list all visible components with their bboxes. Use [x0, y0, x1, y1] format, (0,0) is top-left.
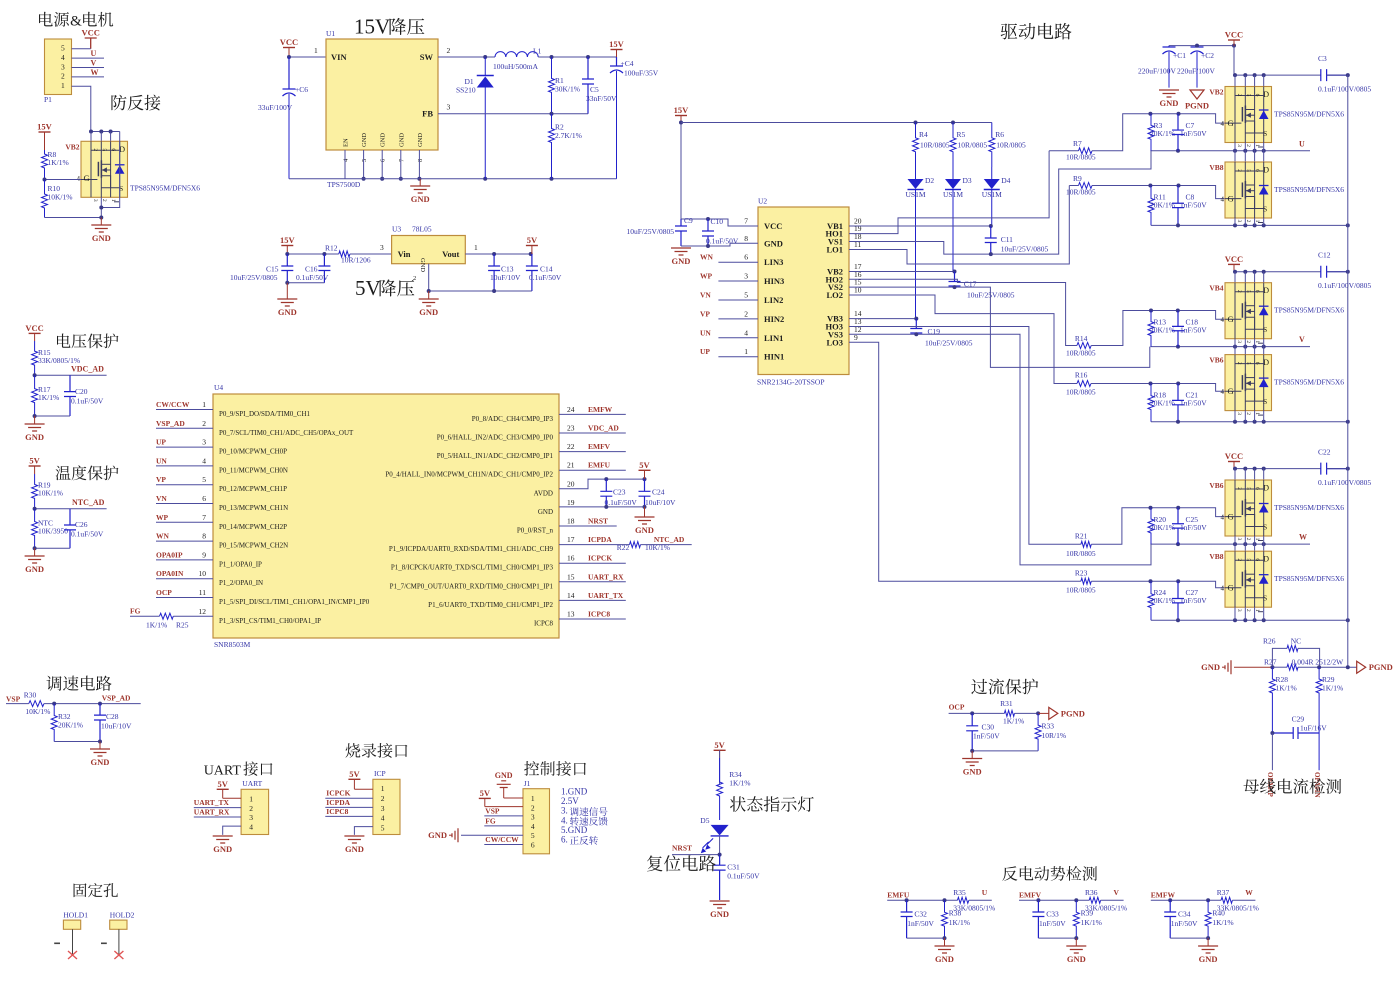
svg-text:1nF/50V: 1nF/50V — [1171, 919, 1198, 928]
wire U2 UN — [718, 337, 758, 339]
power VCC — [1225, 30, 1243, 47]
wire P1 pin3 V — [72, 67, 105, 69]
svg-text:+C6: +C6 — [295, 85, 308, 94]
svg-text:20K/1%: 20K/1% — [1150, 201, 1175, 210]
resistor R17 — [32, 375, 60, 416]
wire U4 pin 10 — [156, 578, 213, 580]
svg-text:10K/1%: 10K/1% — [645, 543, 670, 552]
svg-text:P0_4/HALL_IN0/MCPWM_CH1N/ADC_C: P0_4/HALL_IN0/MCPWM_CH1N/ADC_CH1/CMP0_IP… — [385, 471, 553, 479]
svg-text:VSP: VSP — [6, 695, 21, 704]
pin 23 U4 — [437, 424, 575, 442]
ground — [91, 218, 111, 244]
svg-text:OCP: OCP — [949, 703, 965, 712]
wire R21 to gate5 — [1091, 508, 1225, 545]
svg-text:6: 6 — [1254, 558, 1260, 561]
resistor R28 — [1269, 667, 1296, 733]
svg-text:10R/1206: 10R/1206 — [341, 256, 371, 265]
resistor R33 — [1035, 713, 1066, 751]
wire drain rail — [1234, 271, 1321, 273]
svg-text:0.1uF/50V: 0.1uF/50V — [296, 273, 329, 282]
svg-text:24: 24 — [567, 405, 575, 414]
svg-text:W: W — [91, 68, 99, 77]
svg-text:20K/1%: 20K/1% — [1150, 399, 1175, 408]
svg-text:10K/1%: 10K/1% — [25, 707, 50, 716]
ground — [1198, 938, 1218, 964]
title 状态指示灯 — [730, 796, 814, 812]
title 5V降压 — [355, 276, 414, 300]
pin 24 U4 — [472, 405, 575, 423]
svg-text:10uF/25V/0805: 10uF/25V/0805 — [925, 339, 973, 348]
svg-text:10uF/25V/0805: 10uF/25V/0805 — [1001, 245, 1049, 254]
svg-text:7: 7 — [202, 513, 206, 522]
capacitor C9 — [675, 219, 687, 246]
svg-text:OPA0IP: OPA0IP — [156, 550, 183, 559]
wire Q1 right side — [101, 132, 119, 208]
connector J1 — [523, 779, 550, 854]
svg-text:C23: C23 — [613, 488, 626, 497]
svg-text:2: 2 — [1245, 412, 1251, 415]
svg-text:P1: P1 — [44, 95, 52, 104]
node VP — [156, 475, 166, 484]
svg-text:GND: GND — [417, 133, 424, 147]
svg-text:1nF/50V: 1nF/50V — [907, 919, 934, 928]
svg-text:1: 1 — [381, 784, 385, 793]
wire EMFU row — [887, 899, 957, 901]
resistor R32 — [51, 704, 83, 742]
svg-text:220uF/100V: 220uF/100V — [1138, 67, 1177, 76]
pin 21 U4 — [385, 461, 574, 479]
wire U2 VN — [718, 299, 758, 301]
resistor R19 — [32, 474, 63, 509]
svg-text:S: S — [1263, 129, 1267, 138]
svg-text:5V: 5V — [355, 276, 381, 300]
svg-text:GND: GND — [672, 256, 691, 266]
svg-text:5V: 5V — [639, 460, 650, 470]
svg-text:10R/0805: 10R/0805 — [958, 141, 988, 150]
svg-text:VP: VP — [156, 475, 166, 484]
wire C1 C2 to VCC — [1169, 46, 1234, 76]
svg-text:W: W — [1299, 533, 1307, 542]
svg-text:GND: GND — [361, 133, 368, 147]
ground — [962, 751, 982, 777]
wire U4 pin 3 — [156, 446, 213, 448]
connector HOLD1 — [54, 911, 88, 960]
wire VS1 net — [849, 151, 1151, 254]
transistor Q3 — [1209, 162, 1344, 223]
wire U2 GND net — [681, 243, 758, 246]
svg-text:HIN1: HIN1 — [764, 352, 784, 362]
svg-text:3: 3 — [249, 813, 253, 822]
svg-text:6: 6 — [1254, 362, 1260, 365]
svg-text:GND: GND — [710, 909, 729, 919]
node OPA0IN — [156, 569, 184, 578]
svg-text:33nF/50V: 33nF/50V — [586, 94, 617, 103]
title 电压保护 — [57, 333, 118, 348]
capacitor C3 — [1321, 69, 1348, 81]
svg-text:5: 5 — [202, 475, 206, 484]
svg-text:2: 2 — [1245, 538, 1251, 541]
svg-text:5: 5 — [101, 148, 107, 151]
svg-text:GND: GND — [635, 525, 654, 535]
svg-text:18: 18 — [567, 517, 575, 526]
ground — [1159, 90, 1179, 108]
svg-text:4: 4 — [1221, 388, 1225, 396]
svg-text:R27: R27 — [1264, 658, 1277, 667]
svg-text:R6: R6 — [995, 130, 1004, 139]
wire P1 pin4 U — [72, 57, 105, 59]
svg-text:LIN1: LIN1 — [764, 333, 783, 343]
capacitor C15 — [281, 254, 293, 283]
svg-text:3: 3 — [380, 243, 384, 252]
svg-text:7: 7 — [744, 217, 748, 226]
svg-text:10uF/25V/0805: 10uF/25V/0805 — [627, 227, 675, 236]
pin 8 U2 GND — [744, 234, 783, 249]
pin 11 U4 — [199, 588, 370, 606]
svg-text:P1_7/CMP0_OUT/UART0_RXD/TIM0_C: P1_7/CMP0_OUT/UART0_RXD/TIM0_CH0/CMP1_IP… — [390, 582, 554, 590]
svg-text:2: 2 — [1245, 609, 1251, 612]
svg-text:S: S — [1263, 205, 1267, 214]
svg-text:2: 2 — [1236, 169, 1242, 172]
wire J1 pin6 — [484, 844, 523, 846]
resistor R2 — [549, 114, 582, 179]
transistor Q6 — [1209, 480, 1344, 541]
ground — [635, 507, 655, 535]
svg-text:PGND: PGND — [1185, 101, 1209, 111]
svg-text:0.1uF/100V/0805: 0.1uF/100V/0805 — [1318, 281, 1371, 290]
svg-text:R39: R39 — [1081, 909, 1094, 918]
svg-text:3: 3 — [447, 103, 451, 112]
svg-text:100uH/500mA: 100uH/500mA — [493, 62, 539, 71]
svg-text:EMFU: EMFU — [887, 891, 910, 900]
svg-text:NRST: NRST — [588, 517, 608, 526]
svg-text:GND: GND — [345, 844, 364, 854]
capacitor C27 — [1172, 581, 1184, 620]
svg-text:GND: GND — [91, 757, 110, 767]
svg-text:16: 16 — [567, 554, 575, 563]
svg-text:1K/1%: 1K/1% — [949, 918, 970, 927]
wire J1 pin1 — [504, 797, 523, 799]
svg-text:3.: 3. — [561, 806, 568, 816]
wire OCP row — [949, 712, 1005, 714]
svg-text:U4: U4 — [214, 383, 223, 392]
resistor R37 — [1217, 888, 1259, 913]
wire drain rail — [1234, 468, 1321, 470]
svg-text:US1M: US1M — [982, 190, 1002, 199]
svg-text:VCC: VCC — [81, 28, 99, 38]
capacitor C23 — [600, 479, 612, 507]
pin 11 U2 LO1 — [826, 240, 861, 255]
svg-text:2: 2 — [531, 803, 535, 812]
svg-text:10K/3950: 10K/3950 — [38, 527, 68, 536]
svg-text:8: 8 — [417, 159, 424, 162]
svg-text:G: G — [1228, 194, 1234, 204]
svg-text:4: 4 — [61, 53, 65, 62]
wire U2 UP — [718, 356, 758, 358]
wire U4 pin 5 — [156, 484, 213, 486]
svg-text:GND: GND — [963, 767, 982, 777]
svg-text:10R/1%: 10R/1% — [1042, 731, 1067, 740]
svg-text:P1_5/SPI_DI/SCL/TIM1_CH1/OPA1_: P1_5/SPI_DI/SCL/TIM1_CH1/OPA1_IN/CMP1_IP… — [219, 598, 370, 606]
resistor R9 — [1066, 174, 1096, 197]
title 调速电路 — [46, 676, 111, 691]
svg-text:2: 2 — [1236, 94, 1242, 97]
resistor R22 — [559, 542, 692, 552]
svg-text:4: 4 — [1221, 120, 1225, 128]
power PGND — [1049, 707, 1085, 719]
svg-text:2: 2 — [381, 794, 385, 803]
svg-text:D: D — [1263, 555, 1269, 564]
svg-text:C34: C34 — [1178, 910, 1191, 919]
svg-text:1K/1%: 1K/1% — [1081, 918, 1102, 927]
wire P1 pin2 W — [72, 76, 105, 78]
svg-text:1: 1 — [61, 81, 65, 90]
svg-text:2: 2 — [1245, 144, 1251, 147]
resistor R27 shunt — [1264, 658, 1357, 671]
wire phase row — [1150, 346, 1310, 348]
power PGND — [1357, 661, 1393, 673]
title 烧录接口 — [345, 743, 407, 758]
svg-text:LIN3: LIN3 — [764, 257, 783, 267]
svg-text:P0_13/MCPWM_CH1N: P0_13/MCPWM_CH1N — [219, 504, 288, 512]
svg-text:ICPCK: ICPCK — [588, 554, 612, 563]
title 母线电流检测 — [1243, 778, 1341, 793]
svg-text:2: 2 — [1236, 362, 1242, 365]
power VCC — [25, 323, 43, 341]
node OCP — [156, 588, 172, 597]
wire R8 to gate — [45, 179, 82, 181]
pin 14 U2 VB3 — [827, 309, 862, 324]
wire 15V vertical to C9 — [680, 123, 682, 220]
wire HO3 to R21 — [849, 327, 1081, 545]
wire LO2 to R16 — [849, 295, 1077, 384]
capacitor C30 — [966, 713, 978, 751]
svg-text:6: 6 — [1254, 487, 1260, 490]
svg-text:GND: GND — [213, 844, 232, 854]
svg-text:UART_TX: UART_TX — [588, 591, 624, 600]
wire U4 right pin 18 — [559, 525, 617, 527]
svg-text:G: G — [1228, 386, 1234, 396]
wire U4 pin 1 — [156, 409, 213, 411]
svg-text:GND: GND — [380, 133, 387, 147]
svg-text:4: 4 — [381, 814, 385, 823]
svg-text:D: D — [119, 145, 125, 154]
svg-text:1K/1%: 1K/1% — [146, 621, 167, 630]
svg-text:3: 3 — [531, 813, 535, 822]
svg-text:CW/CCW: CW/CCW — [485, 835, 519, 844]
svg-text:1: 1 — [202, 400, 206, 409]
svg-text:VB6: VB6 — [1209, 356, 1223, 365]
wire U4 right pin 15 — [559, 581, 626, 583]
capacitor C13 — [488, 254, 500, 291]
svg-text:R37: R37 — [1217, 888, 1230, 897]
svg-text:8: 8 — [202, 532, 206, 541]
wire source row — [1151, 224, 1348, 226]
svg-text:D: D — [1263, 286, 1269, 295]
svg-text:C24: C24 — [652, 488, 665, 497]
svg-text:6: 6 — [110, 148, 116, 151]
diode D1 SS210 — [456, 57, 494, 179]
svg-text:P0_8/ADC_CH4/CMP0_IP3: P0_8/ADC_CH4/CMP0_IP3 — [472, 415, 554, 423]
node CW/CCW — [156, 400, 190, 409]
ground — [671, 248, 691, 266]
svg-text:6: 6 — [531, 841, 535, 850]
wire PGND bus vertical — [1347, 75, 1349, 667]
svg-text:P1_8/ICPCK/UART0_TXD/SCL/TIM1_: P1_8/ICPCK/UART0_TXD/SCL/TIM1_CH0/CMP1_I… — [391, 564, 554, 572]
svg-text:P0_15/MCPWM_CH2N: P0_15/MCPWM_CH2N — [219, 542, 288, 550]
wire VCC stem — [1233, 46, 1235, 75]
pin 12 U4 — [199, 607, 322, 625]
svg-text:2: 2 — [744, 309, 748, 318]
svg-text:+C4: +C4 — [621, 59, 634, 68]
svg-text:5: 5 — [744, 291, 748, 300]
wire ICP pin4 — [325, 815, 373, 817]
svg-text:5: 5 — [1245, 94, 1251, 97]
svg-text:P0_11/MCPWM_CH0N: P0_11/MCPWM_CH0N — [219, 466, 288, 474]
resistor R16 — [1066, 371, 1096, 397]
wire Vout row — [465, 253, 532, 255]
svg-text:22: 22 — [567, 442, 575, 451]
svg-text:HIN2: HIN2 — [764, 314, 784, 324]
pin 3 U4 — [202, 438, 287, 456]
svg-text:TPS85N95M/DFN5X6: TPS85N95M/DFN5X6 — [1274, 574, 1344, 583]
svg-text:EMFV: EMFV — [588, 442, 611, 451]
svg-text:VDC_AD: VDC_AD — [588, 424, 619, 433]
capacitor C33 — [1032, 900, 1044, 938]
svg-text:AVDD: AVDD — [534, 489, 553, 497]
svg-text:SNR2134G-20TSSOP: SNR2134G-20TSSOP — [757, 378, 825, 387]
svg-text:TPS7500D: TPS7500D — [327, 180, 361, 189]
svg-text:10R/0805: 10R/0805 — [920, 141, 950, 150]
svg-text:C20: C20 — [75, 387, 88, 396]
capacitor C29 — [1272, 715, 1327, 740]
svg-text:4: 4 — [202, 456, 206, 465]
svg-text:10uF/10V: 10uF/10V — [101, 722, 132, 731]
svg-text:EMFW: EMFW — [1151, 891, 1176, 900]
svg-text:20K/1%: 20K/1% — [1150, 129, 1175, 138]
svg-text:4: 4 — [249, 823, 253, 832]
svg-text:LIN2: LIN2 — [764, 295, 783, 305]
resistor R36 — [1085, 888, 1127, 913]
resistor R35 — [953, 888, 995, 913]
svg-text:C11: C11 — [1001, 235, 1013, 244]
svg-text:ICP: ICP — [374, 769, 386, 778]
title 复位电路 — [647, 855, 716, 871]
svg-text:20K/1%: 20K/1% — [1150, 523, 1175, 532]
svg-text:12: 12 — [199, 607, 207, 616]
svg-text:GND: GND — [419, 258, 426, 272]
wire U4 right pin 21 — [559, 469, 626, 471]
svg-text:10R/0805: 10R/0805 — [1066, 349, 1096, 358]
power VCC — [280, 37, 298, 57]
svg-text:V: V — [1299, 335, 1305, 344]
resistor R40 — [1205, 900, 1234, 938]
power VCC — [1225, 451, 1243, 468]
svg-text:P0_9/SPI_DO/SDA/TIM0_CH1: P0_9/SPI_DO/SDA/TIM0_CH1 — [219, 410, 311, 418]
title 控制接口 — [524, 761, 586, 776]
wire U4 pin 6 — [156, 503, 213, 505]
wire VS2 net — [849, 287, 1150, 367]
svg-text:R21: R21 — [1075, 532, 1088, 541]
svg-text:VB2: VB2 — [65, 142, 79, 151]
svg-text:C26: C26 — [75, 520, 88, 529]
op-amp U2 gate driver — [757, 197, 849, 387]
svg-text:0.004R 2512/2W: 0.004R 2512/2W — [1292, 658, 1345, 667]
ground — [344, 836, 364, 854]
capacitor C14 — [526, 254, 538, 291]
svg-text:TPS85N95M/DFN5X6: TPS85N95M/DFN5X6 — [1274, 110, 1344, 119]
svg-text:GND: GND — [25, 432, 44, 442]
pin 14 U4 — [428, 591, 575, 609]
svg-text:TPS85N95M/DFN5X6: TPS85N95M/DFN5X6 — [1274, 503, 1344, 512]
svg-text:P1_6/UART0_TXD/TIM0_CH1/CMP1_I: P1_6/UART0_TXD/TIM0_CH1/CMP1_IP2 — [428, 601, 553, 609]
wire C22 to bus — [1327, 468, 1348, 470]
wire R28 down — [1271, 733, 1273, 770]
svg-text:R31: R31 — [1000, 699, 1013, 708]
svg-text:R26: R26 — [1263, 637, 1276, 646]
wire L1 to 15V — [538, 56, 616, 58]
title 反电动势检测 — [1002, 866, 1097, 881]
svg-text:4: 4 — [1221, 514, 1225, 522]
node WP — [156, 513, 169, 522]
svg-text:6: 6 — [202, 494, 206, 503]
svg-text:10K/1%: 10K/1% — [48, 193, 73, 202]
svg-text:1.GND: 1.GND — [561, 787, 588, 797]
svg-text:4: 4 — [1221, 196, 1225, 204]
svg-text:C32: C32 — [914, 910, 927, 919]
svg-text:3: 3 — [1236, 538, 1242, 541]
wire VCC stem — [1233, 468, 1235, 469]
ground — [1066, 938, 1086, 964]
capacitor C16 — [318, 254, 330, 283]
svg-text:TPS85N95M/DFN5X6: TPS85N95M/DFN5X6 — [1274, 185, 1344, 194]
svg-text:C31: C31 — [727, 863, 740, 872]
pin 15 U4 — [390, 572, 575, 590]
svg-text:G: G — [1228, 512, 1234, 522]
node VN — [156, 494, 167, 503]
svg-text:FG: FG — [485, 816, 496, 825]
svg-text:21: 21 — [567, 461, 575, 470]
node UP — [156, 438, 166, 447]
svg-text:5: 5 — [531, 831, 535, 840]
connector P1 — [44, 39, 72, 104]
wire gnd to R27 — [1234, 666, 1272, 668]
wire ocp bottom — [972, 750, 1038, 752]
op-amp U4 MCU — [213, 383, 559, 649]
wire R31 to PGND — [1015, 712, 1039, 714]
wire tprot gnd — [35, 547, 70, 549]
svg-text:S: S — [1263, 397, 1267, 406]
svg-text:10: 10 — [199, 569, 207, 578]
svg-text:WN: WN — [700, 253, 714, 262]
power VCC — [81, 28, 99, 49]
svg-text:2.5V: 2.5V — [561, 796, 579, 806]
wire gnd bus U1 — [289, 178, 617, 180]
wire U4 right pin 14 — [559, 599, 626, 601]
svg-text:1: 1 — [314, 46, 318, 55]
svg-text:15: 15 — [567, 572, 575, 581]
wire P1 pin1 to Q1 — [72, 86, 91, 131]
svg-text:GND: GND — [398, 133, 405, 147]
capacitor C32 — [901, 900, 913, 938]
wire J1 pin3 — [484, 815, 523, 817]
pin 18 U2 VS1 — [828, 232, 862, 247]
capacitor C25 — [1172, 508, 1184, 544]
svg-text:0.1uF/50V: 0.1uF/50V — [71, 397, 104, 406]
svg-text:5V: 5V — [218, 779, 229, 789]
svg-text:5V: 5V — [527, 235, 538, 245]
svg-text:11: 11 — [199, 588, 206, 597]
pin 17 U2 VB2 — [827, 262, 862, 277]
